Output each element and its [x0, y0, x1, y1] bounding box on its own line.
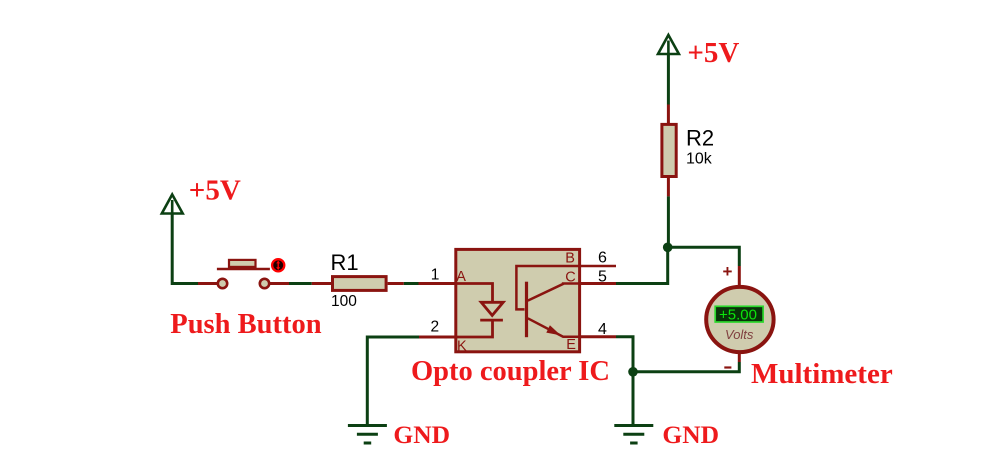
wire from left +5V down and right to push button [172, 214, 198, 284]
svg-text:+: + [723, 262, 733, 281]
svg-text:B: B [565, 251, 575, 267]
wire junction right and down to multimeter + [668, 247, 740, 266]
phototransistor inside optocoupler [516, 266, 616, 337]
svg-text:GND: GND [662, 420, 719, 449]
ground symbol (right) [614, 426, 653, 444]
wire multimeter - down and left to junction [738, 353, 741, 362]
junction node (R2 / pin5 / multimeter +) [663, 243, 673, 253]
svg-text:E: E [566, 337, 576, 353]
wire R2 down to junction [667, 178, 670, 196]
svg-text:+5V: +5V [687, 37, 739, 69]
svg-text:+5.00: +5.00 [719, 306, 757, 323]
svg-text:Opto coupler IC: Opto coupler IC [411, 356, 610, 387]
svg-text:R1: R1 [331, 250, 359, 275]
opto pin 5 lead [581, 282, 617, 285]
svg-text:100: 100 [331, 293, 357, 310]
svg-text:6: 6 [598, 250, 607, 267]
push button SW1 [217, 260, 270, 288]
ground symbol (left) [348, 426, 387, 444]
svg-text:10k: 10k [686, 151, 713, 168]
svg-text:Volts: Volts [725, 327, 754, 342]
push button interactive toggle marker [272, 259, 284, 271]
LED diode inside optocoupler [455, 284, 504, 338]
wire pin 4 to GND rail [616, 337, 633, 425]
svg-text:K: K [457, 339, 467, 355]
svg-text:1: 1 [431, 267, 440, 284]
svg-text:+5V: +5V [189, 175, 241, 207]
svg-text:2: 2 [431, 318, 440, 335]
power symbol +5V (left) [162, 195, 183, 214]
svg-text:Push Button: Push Button [170, 309, 321, 340]
wire +5V down to R2 [667, 54, 670, 105]
wire push button to R1 [270, 282, 289, 285]
opto coupler IC U1 body [456, 249, 580, 351]
wire opto pin 2 (K) to GND [419, 336, 455, 339]
junction node (multimeter - / pin 4 / GND) [628, 367, 638, 377]
wire pin lead into push button left terminal [198, 282, 217, 285]
svg-text:R2: R2 [686, 125, 714, 150]
resistor R2 [662, 124, 676, 176]
opto pin 4 lead [581, 335, 617, 338]
resistor R1 [333, 277, 387, 291]
wire R1 to optocoupler pin 1 [388, 282, 404, 285]
svg-text:GND: GND [393, 420, 450, 449]
multimeter display [715, 306, 763, 322]
wire junction down and left to opto pin 5 [616, 247, 668, 283]
minus terminal sign [724, 366, 731, 368]
multimeter body [706, 287, 773, 352]
svg-text:Multimeter: Multimeter [751, 358, 893, 390]
power symbol +5V (top right) [658, 35, 679, 54]
